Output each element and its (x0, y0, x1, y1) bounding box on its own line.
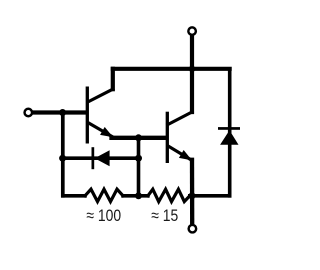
svg-text:≈ 100: ≈ 100 (86, 207, 121, 226)
svg-text:≈ 15: ≈ 15 (151, 207, 178, 226)
